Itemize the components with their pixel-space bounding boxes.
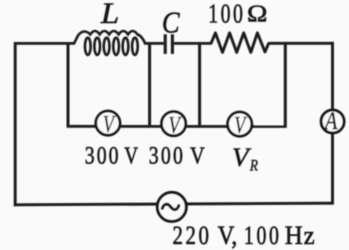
svg-text:Hz: Hz [285, 220, 316, 250]
wire top left segment [14, 42, 75, 45]
AC source tilde [162, 204, 179, 209]
voltmeter V3 circle [228, 112, 252, 136]
wire top segment C to R [174, 42, 212, 45]
svg-text:300: 300 [149, 141, 185, 169]
wire voltmeter row [67, 125, 287, 128]
wire right vertical [331, 42, 334, 205]
wire junction vertical J3 [198, 43, 201, 126]
capacitor C plates [165, 34, 172, 54]
ammeter A circle [321, 110, 344, 133]
svg-text:V: V [232, 143, 251, 172]
wire bottom [14, 203, 333, 205]
svg-text:Ω: Ω [247, 0, 267, 27]
svg-text:300: 300 [85, 141, 121, 169]
wire top segment L to C [144, 42, 164, 45]
svg-text:C: C [162, 7, 181, 40]
wire junction vertical J4 [284, 43, 287, 126]
inductor L coil [74, 31, 145, 55]
wire left vertical [14, 42, 17, 206]
voltmeter V2 circle [162, 112, 186, 136]
svg-text:220: 220 [173, 222, 212, 250]
svg-text:L: L [100, 0, 119, 30]
svg-text:V: V [190, 142, 205, 169]
svg-text:100: 100 [244, 221, 282, 250]
svg-text:V,: V, [218, 222, 238, 250]
svg-text:V: V [124, 143, 138, 170]
wire top right segment [268, 42, 334, 45]
svg-text:R: R [249, 158, 258, 175]
voltmeter V1 circle [96, 111, 120, 135]
svg-text:100: 100 [208, 0, 245, 30]
AC source circle [157, 192, 186, 221]
svg-text:A: A [323, 107, 338, 134]
wire junction vertical J2 [148, 43, 151, 126]
wire junction vertical J1 [67, 43, 70, 126]
resistor R 100 ohm zigzag [211, 33, 269, 53]
